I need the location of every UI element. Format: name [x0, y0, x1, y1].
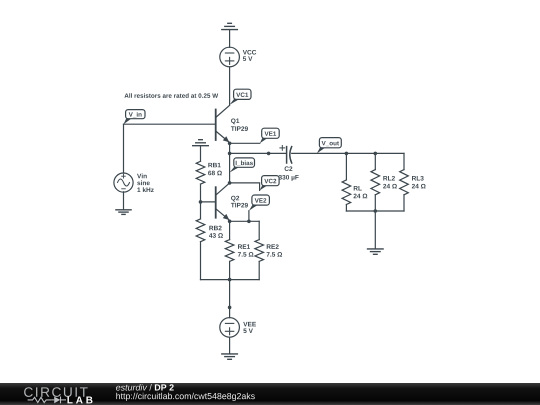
node flag VC1	[230, 89, 251, 105]
label Q2 value	[231, 196, 248, 208]
node Q2 collector	[228, 181, 232, 185]
wire VCC to Q1 collector	[229, 67, 231, 105]
wire emitter node to VE1 flag	[230, 142, 260, 144]
wire bottom rail	[201, 279, 260, 281]
node flag VC2	[260, 176, 280, 191]
resistor RE2	[255, 221, 264, 279]
wire bottom rail to VEE	[229, 280, 231, 318]
label RB1 value	[208, 163, 222, 175]
wire Q2 collector node to VC2 flag	[230, 183, 260, 191]
label RL value	[354, 186, 368, 198]
node load bottom	[374, 209, 378, 213]
resistor RL3	[400, 153, 409, 211]
resistor RB2	[196, 219, 205, 280]
logo waveform	[28, 397, 66, 404]
transistor Q1	[216, 105, 230, 142]
wire RB1 to base node	[200, 184, 202, 219]
wire C2 to load rail	[292, 152, 404, 154]
label VCC value	[243, 50, 257, 61]
label VEE value	[243, 322, 256, 333]
node base RB1/RB2	[199, 200, 203, 204]
ground (inverted) above VCC	[222, 23, 238, 47]
label RE2 value	[267, 244, 283, 256]
label RL2 value	[383, 176, 397, 188]
node flag I_bias	[230, 158, 255, 173]
ground (inverted) above RB1	[193, 140, 209, 162]
node flag V_in	[124, 110, 146, 125]
wire Vin to ground	[123, 192, 125, 210]
node Q1 emitter / VE1	[228, 142, 232, 146]
wire base node to Q2 base	[201, 201, 216, 203]
voltage source VCC	[220, 47, 240, 67]
wire V_in down to Vin source	[123, 124, 125, 173]
voltage source Vin (sine)	[114, 173, 133, 192]
resistor RL	[342, 153, 351, 211]
node flag V_out	[317, 138, 341, 154]
wire VE2 riser	[248, 211, 250, 222]
node RL2 top	[374, 152, 378, 156]
wire VEE to ground	[229, 337, 231, 354]
voltage source VEE	[220, 318, 240, 338]
wire Q1 emitter to Q2 collector (rail)	[229, 143, 231, 183]
wire V_in to Q1 base	[124, 123, 216, 125]
capacitor C2	[280, 146, 292, 164]
wire output node to C2	[230, 152, 286, 154]
wire Q2 emitter rail	[230, 220, 260, 222]
node Q2 emitter	[228, 220, 232, 224]
label C2 value	[279, 166, 299, 180]
node bottom rail	[228, 278, 232, 282]
label RL3 value	[412, 176, 426, 188]
logo LAB	[67, 397, 92, 404]
node RL top	[345, 152, 349, 156]
ground under VEE	[222, 354, 238, 359]
footer url text	[116, 393, 254, 401]
resistor RB1	[196, 161, 205, 184]
node VEE stem	[228, 306, 232, 310]
label RB2 value	[209, 226, 223, 238]
label Vin value	[137, 173, 154, 192]
node flag VE1	[260, 128, 279, 143]
label Q1 value	[231, 118, 248, 131]
wire load rail to ground	[374, 211, 376, 249]
resistor RE1	[225, 221, 234, 279]
label note all resistors	[124, 93, 218, 98]
footer user text	[116, 384, 174, 391]
transistor Q2	[216, 183, 230, 220]
label RE1 value	[238, 244, 254, 256]
node flag VE2	[249, 195, 270, 211]
node output to C2	[228, 152, 232, 156]
wire load bottom rail	[346, 210, 404, 212]
node VE2 riser	[247, 220, 251, 224]
resistor RL2	[371, 153, 380, 211]
node mid output wire	[267, 152, 271, 156]
ground under Vin	[116, 210, 131, 215]
logo CIRCUIT	[24, 387, 88, 397]
ground under load rail	[368, 249, 384, 254]
